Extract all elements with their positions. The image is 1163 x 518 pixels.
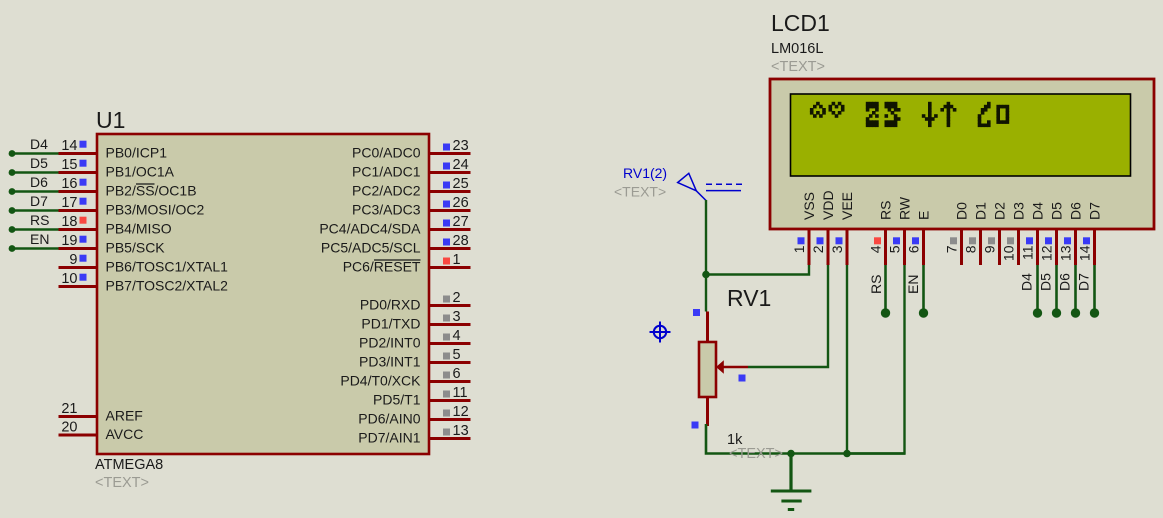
svg-text:PC3/ADC3: PC3/ADC3 xyxy=(352,202,421,218)
svg-text:9: 9 xyxy=(69,252,77,268)
wire VSS pin1 to RV1 top junction xyxy=(706,265,809,275)
RV1 indicator square wiper xyxy=(739,375,746,382)
LCD1 screen xyxy=(791,94,1131,176)
wire D5 under LCD xyxy=(1052,265,1061,318)
svg-text:D5: D5 xyxy=(30,155,48,171)
LCD glyph square xyxy=(996,105,1009,124)
svg-text:12: 12 xyxy=(453,404,469,420)
U1 pin 15 PB1 OC1A xyxy=(59,157,175,180)
svg-text:5: 5 xyxy=(887,245,903,253)
svg-text:PB3/MOSI/OC2: PB3/MOSI/OC2 xyxy=(106,202,205,218)
LCD1 pin 14 D7 xyxy=(1077,202,1103,265)
U1 pin 25 PC2 ADC2 xyxy=(352,176,470,199)
svg-text:D6: D6 xyxy=(30,174,48,190)
LCD glyph digit 3 xyxy=(885,102,901,127)
svg-text:1: 1 xyxy=(453,252,461,268)
svg-text:RW: RW xyxy=(897,196,913,220)
wire RS to U1 xyxy=(9,226,59,233)
LCD1 pin 3 VEE xyxy=(829,192,855,265)
svg-text:LM016L: LM016L xyxy=(771,41,823,57)
svg-text:PD4/T0/XCK: PD4/T0/XCK xyxy=(340,373,421,389)
svg-text:20: 20 xyxy=(61,420,77,436)
junction node ground stem xyxy=(787,450,795,458)
svg-text:D4: D4 xyxy=(30,136,48,152)
svg-text:7: 7 xyxy=(944,245,960,253)
svg-text:VSS: VSS xyxy=(801,192,817,220)
svg-text:RS: RS xyxy=(878,201,894,220)
svg-text:D5: D5 xyxy=(1049,202,1065,220)
svg-text:4: 4 xyxy=(453,328,461,344)
svg-text:PD0/RXD: PD0/RXD xyxy=(360,297,421,313)
potentiometer RV1 body xyxy=(699,342,716,397)
LCD1 pin 2 VDD xyxy=(810,190,836,265)
wire RW pin5 to ground rail xyxy=(847,265,905,454)
svg-text:RV1(2): RV1(2) xyxy=(623,165,667,181)
wire D6 under LCD xyxy=(1071,265,1080,318)
svg-text:10: 10 xyxy=(1001,245,1017,261)
svg-text:D7: D7 xyxy=(30,193,48,209)
U1 pin 26 PC3 ADC3 xyxy=(352,195,470,218)
svg-text:2: 2 xyxy=(453,290,461,306)
RV1 indicator square bottom xyxy=(692,422,699,429)
svg-text:PC1/ADC1: PC1/ADC1 xyxy=(352,164,421,180)
U1 pin 28 PC5 ADC5 SCL xyxy=(321,233,471,256)
svg-text:2: 2 xyxy=(810,245,826,253)
LCD1 pin 12 D5 xyxy=(1039,202,1065,265)
junction node VEE at rail xyxy=(843,450,851,458)
junction node at RV1 top xyxy=(702,271,710,279)
wire D4 to U1 xyxy=(9,150,59,157)
svg-text:PB7/TOSC2/XTAL2: PB7/TOSC2/XTAL2 xyxy=(106,278,229,294)
RV1 wiper arrow xyxy=(716,360,748,374)
svg-text:3: 3 xyxy=(453,309,461,325)
LCD glyph down arrow xyxy=(922,102,938,127)
chip U1 body xyxy=(97,134,429,454)
LCD glyph house xyxy=(810,102,826,118)
svg-text:VDD: VDD xyxy=(820,190,836,220)
svg-text:D6: D6 xyxy=(1057,273,1073,291)
svg-text:D7: D7 xyxy=(1076,273,1092,291)
svg-text:16: 16 xyxy=(61,176,77,192)
svg-text:27: 27 xyxy=(453,214,469,230)
svg-text:D0: D0 xyxy=(954,202,970,220)
RV1 bottom pin xyxy=(706,397,709,426)
wire flag down to RV1 top xyxy=(705,200,707,312)
wire RV1 bottom to ground rail xyxy=(706,424,905,454)
svg-text:D6: D6 xyxy=(1068,202,1084,220)
svg-text:ATMEGA8: ATMEGA8 xyxy=(95,457,163,473)
svg-text:3: 3 xyxy=(829,245,845,253)
svg-text:<TEXT>: <TEXT> xyxy=(771,59,825,75)
svg-text:PB4/MISO: PB4/MISO xyxy=(106,221,172,237)
svg-text:RS: RS xyxy=(868,275,884,294)
U1 pin 23 PC0 ADC0 xyxy=(352,138,470,161)
U1 pin 13 PD7 AIN1 xyxy=(358,423,470,446)
svg-text:PD5/T1: PD5/T1 xyxy=(373,392,421,408)
svg-text:21: 21 xyxy=(61,401,77,417)
U1 pin 21 AREF xyxy=(59,401,143,424)
wire D7 to U1 xyxy=(9,207,59,214)
svg-text:RS: RS xyxy=(30,212,49,228)
LCD1 pin 10 D3 xyxy=(1001,202,1027,265)
LCD1 display body xyxy=(770,79,1154,229)
svg-text:5: 5 xyxy=(453,347,461,363)
svg-text:11: 11 xyxy=(453,385,468,401)
RV1 top pin xyxy=(706,312,709,343)
RV1 origin marker xyxy=(650,322,671,343)
svg-text:17: 17 xyxy=(61,195,77,211)
U1 pin 24 PC1 ADC1 xyxy=(352,157,470,180)
svg-text:PC2/ADC2: PC2/ADC2 xyxy=(352,183,421,199)
svg-text:<TEXT>: <TEXT> xyxy=(614,184,666,200)
svg-text:18: 18 xyxy=(61,214,77,230)
svg-text:PB2/SS/OC1B: PB2/SS/OC1B xyxy=(106,183,197,199)
svg-text:4: 4 xyxy=(868,245,884,253)
LCD1 pin 4 RS xyxy=(868,201,894,265)
svg-text:28: 28 xyxy=(453,233,469,249)
svg-text:LCD1: LCD1 xyxy=(771,10,830,36)
svg-text:D4: D4 xyxy=(1030,202,1046,220)
wire D6 to U1 xyxy=(9,188,59,195)
svg-text:PC6/RESET: PC6/RESET xyxy=(343,259,421,275)
svg-text:PD6/AIN0: PD6/AIN0 xyxy=(358,411,420,427)
svg-text:13: 13 xyxy=(453,423,469,439)
wire VEE pin3 down to ground rail xyxy=(846,265,848,454)
LCD1 pin 6 E xyxy=(906,211,932,265)
svg-text:24: 24 xyxy=(453,157,469,173)
svg-text:15: 15 xyxy=(61,157,77,173)
svg-text:1: 1 xyxy=(791,245,807,253)
svg-text:6: 6 xyxy=(453,366,461,382)
svg-text:11: 11 xyxy=(1020,245,1036,260)
U1 pin 19 PB5 SCK xyxy=(59,233,166,256)
svg-text:PC0/ADC0: PC0/ADC0 xyxy=(352,145,421,161)
svg-text:VEE: VEE xyxy=(839,192,855,220)
U1 pin 11 PD5 T1 xyxy=(373,385,470,408)
svg-text:D1: D1 xyxy=(973,202,989,220)
LCD1 pin 11 D4 xyxy=(1020,202,1046,265)
U1 pin 16 PB2 SS OC1B xyxy=(59,176,197,199)
wire RS pin4 stub down xyxy=(881,265,890,318)
svg-text:<TEXT>: <TEXT> xyxy=(95,475,149,491)
wire EN to U1 xyxy=(9,245,59,252)
RV1 indicator square top xyxy=(693,309,700,316)
svg-text:PD7/AIN1: PD7/AIN1 xyxy=(358,430,420,446)
svg-text:D2: D2 xyxy=(992,202,1008,220)
svg-text:PD1/TXD: PD1/TXD xyxy=(361,316,420,332)
svg-text:PC5/ADC5/SCL: PC5/ADC5/SCL xyxy=(321,240,421,256)
U1 pin 20 AVCC xyxy=(59,420,144,443)
svg-text:9: 9 xyxy=(982,245,998,253)
svg-text:U1: U1 xyxy=(96,107,125,133)
U1 pin 12 PD6 AIN0 xyxy=(358,404,470,427)
wire D5 to U1 xyxy=(9,169,59,176)
svg-text:PC4/ADC4/SDA: PC4/ADC4/SDA xyxy=(319,221,421,237)
svg-text:6: 6 xyxy=(906,245,922,253)
svg-text:25: 25 xyxy=(453,176,469,192)
net label flag RV1(2) xyxy=(678,173,742,201)
svg-text:AREF: AREF xyxy=(106,408,143,424)
svg-text:D4: D4 xyxy=(1019,273,1035,291)
U1 pin 27 PC4 ADC4 SDA xyxy=(319,214,470,237)
svg-text:14: 14 xyxy=(61,138,77,154)
wire D4 under LCD xyxy=(1033,265,1042,318)
LCD glyph up arrow xyxy=(940,102,956,127)
LCD glyph angle xyxy=(978,102,991,127)
svg-text:EN: EN xyxy=(905,275,921,294)
svg-text:RV1: RV1 xyxy=(727,285,771,311)
svg-text:AVCC: AVCC xyxy=(106,426,144,442)
LCD glyph heart xyxy=(829,102,845,118)
LCD1 pin 7 D0 xyxy=(944,202,970,265)
svg-text:PB6/TOSC1/XTAL1: PB6/TOSC1/XTAL1 xyxy=(106,259,229,275)
LCD1 pin 8 D1 xyxy=(963,202,989,265)
svg-text:12: 12 xyxy=(1039,245,1055,261)
svg-text:8: 8 xyxy=(963,245,979,253)
svg-text:E: E xyxy=(916,211,932,220)
svg-text:D3: D3 xyxy=(1011,202,1027,220)
svg-text:10: 10 xyxy=(61,271,77,287)
LCD glyph digit 2 xyxy=(866,102,879,127)
U1 pin 1 PC6 RESET xyxy=(343,252,471,275)
U1 pin 4 PD2 INT0 xyxy=(359,328,470,351)
U1 pin 14 PB0 ICP1 xyxy=(59,138,168,161)
U1 pin 2 PD0 RXD xyxy=(360,290,471,313)
svg-text:23: 23 xyxy=(453,138,469,154)
svg-text:PD3/INT1: PD3/INT1 xyxy=(359,354,421,370)
U1 pin 10 PB7 TOSC2 XTAL2 xyxy=(59,271,229,294)
LCD1 pin 1 VSS xyxy=(791,192,817,265)
LCD1 pin 5 RW xyxy=(887,196,913,265)
svg-text:19: 19 xyxy=(61,233,77,249)
LCD1 pin 9 D2 xyxy=(982,202,1008,265)
wire VDD pin2 down to wiper xyxy=(748,265,828,367)
svg-text:D7: D7 xyxy=(1087,202,1103,220)
svg-text:D5: D5 xyxy=(1038,273,1054,291)
svg-text:PB0/ICP1: PB0/ICP1 xyxy=(106,145,168,161)
svg-text:PD2/INT0: PD2/INT0 xyxy=(359,335,421,351)
LCD1 pin 13 D6 xyxy=(1058,202,1084,265)
U1 pin 6 PD4 T0 XCK xyxy=(340,366,470,389)
svg-text:26: 26 xyxy=(453,195,469,211)
svg-text:14: 14 xyxy=(1077,245,1093,261)
svg-text:<TEXT>: <TEXT> xyxy=(729,446,783,462)
svg-text:EN: EN xyxy=(30,231,49,247)
svg-text:13: 13 xyxy=(1058,245,1074,261)
wire E pin6 stub down xyxy=(919,265,928,318)
ground symbol xyxy=(771,454,812,510)
U1 pin 18 PB4 MISO xyxy=(59,214,172,237)
svg-text:PB1/OC1A: PB1/OC1A xyxy=(106,164,175,180)
wire D7 under LCD xyxy=(1090,265,1099,318)
U1 pin 9 PB6 TOSC1 XTAL1 xyxy=(59,252,229,275)
U1 pin 3 PD1 TXD xyxy=(361,309,470,332)
svg-text:PB5/SCK: PB5/SCK xyxy=(106,240,166,256)
U1 pin 5 PD3 INT1 xyxy=(359,347,470,370)
U1 pin 17 PB3 MOSI OC2 xyxy=(59,195,205,218)
